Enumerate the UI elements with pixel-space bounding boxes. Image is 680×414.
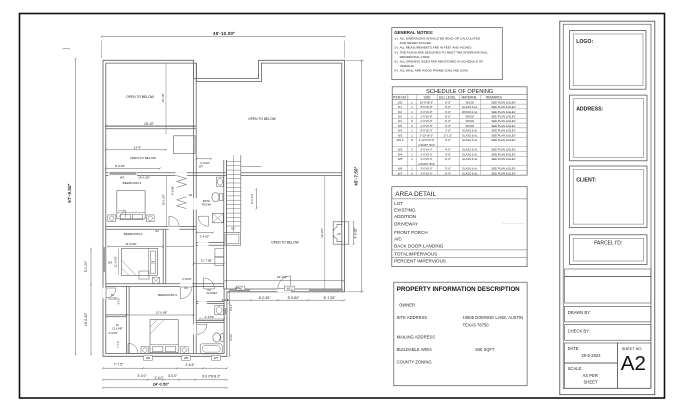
wall: left closet shelf — [106, 315, 127, 317]
svg-text:AND NEVER SCALED.: AND NEVER SCALED. — [400, 41, 432, 45]
svg-text:SEE PLAN & ELEV: SEE PLAN & ELEV — [491, 148, 515, 152]
svg-text:TOTALIMPERVIOUS: TOTALIMPERVIOUS — [394, 252, 437, 257]
svg-text:SEE PLAN & ELEV: SEE PLAN & ELEV — [491, 129, 515, 133]
svg-text:0'-0": 0'-0" — [445, 114, 451, 118]
svg-text:D4: D4 — [207, 288, 211, 292]
svg-text:W2.2: W2.2 — [396, 138, 403, 142]
svg-text:W3: W3 — [120, 176, 125, 180]
window W3 left wall — [103, 247, 112, 272]
svg-text:GLASS & AL: GLASS & AL — [462, 157, 478, 161]
svg-text:ITEM NO +: ITEM NO + — [393, 96, 409, 100]
svg-text:PROPERTY INFORMATION DESCRIPTI: PROPERTY INFORMATION DESCRIPTION — [397, 286, 520, 293]
bath3 sink — [215, 306, 224, 315]
window W3 bedroom1 — [109, 172, 138, 176]
svg-text:SIZE: SIZE — [424, 96, 431, 100]
svg-text:2'-0"x6'-8": 2'-0"x6'-8" — [420, 114, 432, 118]
svg-text:D5: D5 — [231, 227, 235, 231]
area detail box — [392, 187, 527, 267]
svg-text:0'-0": 0'-0" — [445, 138, 451, 142]
dim v 19-0 — [320, 176, 325, 292]
svg-text:AS PER: AS PER — [583, 373, 598, 378]
svg-text:3'-0"x5'-0": 3'-0"x5'-0" — [420, 167, 432, 171]
label kl closet1 — [108, 293, 117, 301]
svg-text:D4: D4 — [184, 286, 188, 290]
svg-text:WOOD: WOOD — [465, 119, 474, 123]
svg-text:SITE ADDRESS: SITE ADDRESS — [397, 315, 428, 320]
svg-text:WT: WT — [199, 165, 203, 168]
title block frame — [560, 21, 655, 395]
svg-text:LONGBT HIGH: LONGBT HIGH — [418, 144, 435, 147]
svg-text:0'-0": 0'-0" — [445, 157, 451, 161]
svg-text:5-): 5-) — [394, 68, 398, 72]
svg-text:OWNER: OWNER — [399, 302, 415, 307]
bed bedroom3 — [141, 320, 188, 354]
svg-text:SHEET: SHEET — [584, 379, 598, 384]
parcel id box — [570, 235, 647, 265]
bath1 shower — [213, 213, 224, 222]
wall: bedroom2 right — [163, 229, 166, 284]
dim 11-7.08 — [193, 259, 226, 265]
svg-text:CHECK BY:: CHECK BY: — [568, 329, 590, 334]
svg-text:SEE PLAN & ELEV: SEE PLAN & ELEV — [491, 157, 515, 161]
svg-text:COUNTY ZONING: COUNTY ZONING — [397, 359, 432, 364]
dim 2-2.00 — [198, 315, 225, 320]
address box — [570, 95, 647, 161]
stairs — [226, 155, 261, 232]
svg-text:SEE PLAN & ELEV: SEE PLAN & ELEV — [491, 119, 515, 123]
svg-text:KL: KL — [116, 323, 120, 327]
svg-text:AREA DETAIL: AREA DETAIL — [395, 191, 436, 198]
svg-text:3'-10"x6'-0": 3'-10"x6'-0" — [420, 133, 434, 137]
svg-text:10805 DOERING LANE, AUSTIN: 10805 DOERING LANE, AUSTIN — [463, 315, 524, 320]
svg-text:D1: D1 — [398, 105, 402, 109]
svg-text:5'-9.50": 5'-9.50" — [288, 296, 301, 300]
svg-text:7'-7.3": 7'-7.3" — [117, 341, 120, 348]
svg-text:ALL OPENING SIZES ARE MENTIONE: ALL OPENING SIZES ARE MENTIONED IN SCHED… — [400, 59, 484, 63]
svg-text:MATERIAL: MATERIAL — [462, 96, 478, 100]
svg-text:4'-0.00": 4'-0.00" — [354, 228, 358, 239]
svg-text:ADDRESS:: ADDRESS: — [576, 107, 603, 113]
svg-text:EXISTING: EXISTING — [394, 208, 416, 213]
bath1 sink — [217, 177, 224, 186]
date box — [565, 343, 618, 363]
svg-text:SEE PLAN & ELEV: SEE PLAN & ELEV — [491, 167, 515, 171]
svg-text:D4: D4 — [398, 119, 402, 123]
door bath1 — [198, 216, 208, 226]
svg-text:BUILDABLE AREA: BUILDABLE AREA — [397, 347, 433, 352]
window tag W6a — [144, 356, 153, 361]
svg-text:45'-7.50": 45'-7.50" — [353, 166, 358, 185]
svg-text:D3: D3 — [398, 114, 402, 118]
svg-text:11'-7.08": 11'-7.08" — [201, 259, 213, 263]
dim left 57-9.50 — [63, 49, 77, 356]
bed bedroom1 — [108, 191, 154, 222]
window tag W2 — [236, 286, 245, 290]
svg-text:DRAWN BY:: DRAWN BY: — [568, 310, 591, 315]
svg-text:4'-0.08": 4'-0.08" — [171, 186, 175, 195]
wall: bath1 bottom — [196, 243, 224, 246]
window band W2 — [229, 289, 250, 292]
svg-text:ADDITION: ADDITION — [394, 214, 416, 219]
hall closet shelf — [166, 245, 194, 247]
dim v right of left block — [228, 291, 233, 358]
svg-text:OPEN TO BELOW: OPEN TO BELOW — [248, 117, 276, 121]
svg-text:FP: FP — [337, 232, 341, 236]
svg-text:3'-0.0": 3'-0.0" — [137, 374, 146, 378]
svg-text:18'-10": 18'-10" — [144, 122, 154, 126]
door closet2 — [128, 343, 138, 353]
svg-text:GLASS & AL: GLASS & AL — [462, 138, 478, 142]
svg-text:ALL MEASUREMENTS ARE IN FEET A: ALL MEASUREMENTS ARE IN FEET AND INCHES — [400, 46, 472, 50]
dim bottom left row A — [102, 363, 228, 370]
svg-text:LOT: LOT — [394, 201, 403, 206]
door gaps — [103, 172, 291, 334]
svg-text:MAILING ADDRESS: MAILING ADDRESS — [397, 335, 436, 340]
door bath3 — [197, 324, 207, 334]
schedule of opening table — [392, 87, 527, 176]
svg-text:GLASS & AL: GLASS & AL — [462, 105, 478, 109]
dim 12-0.08 — [125, 311, 194, 317]
wall: bath column right — [224, 160, 227, 289]
svg-text:3'-0"x5'-0": 3'-0"x5'-0" — [420, 171, 432, 175]
svg-text:8'-6 1/2": 8'-6 1/2" — [250, 193, 254, 204]
dim v 10-1.90 — [162, 176, 167, 227]
svg-text:OPEN TO BELOW: OPEN TO BELOW — [130, 156, 156, 160]
svg-text:2'-0.0": 2'-0.0" — [154, 376, 163, 380]
svg-text:D5: D5 — [398, 124, 402, 128]
svg-text:WT: WT — [214, 356, 219, 360]
svg-text:8'-0"x6'-8": 8'-0"x6'-8" — [420, 105, 432, 109]
svg-text:1-): 1-) — [394, 37, 398, 41]
window tag WT — [212, 356, 221, 361]
svg-text:LONGBT HIGH: LONGBT HIGH — [418, 163, 435, 166]
door closet mid — [204, 278, 215, 289]
svg-text:3'-0"x5'-0": 3'-0"x5'-0" — [420, 157, 432, 161]
svg-text:W2.2: W2.2 — [286, 286, 293, 290]
svg-text:SEE PLAN & ELEV: SEE PLAN & ELEV — [491, 133, 515, 137]
svg-text:SCALE:: SCALE: — [568, 366, 583, 371]
svg-text:W3: W3 — [398, 148, 403, 152]
bath3 toilet — [213, 333, 224, 342]
svg-text:SEE PLAN & ELEV: SEE PLAN & ELEV — [491, 100, 515, 104]
svg-text:A2: A2 — [621, 352, 646, 375]
door bedroom2 — [169, 216, 179, 226]
svg-text:16'-0"x8'-0": 16'-0"x8'-0" — [420, 100, 434, 104]
svg-text:6'-7.25": 6'-7.25" — [324, 296, 337, 300]
svg-text:2'-4.00": 2'-4.00" — [200, 235, 210, 239]
svg-text:2'-0"x5'-0": 2'-0"x5'-0" — [420, 152, 432, 156]
window band W4 left-block right wall — [224, 308, 227, 314]
svg-text:8'-0"x5'-0": 8'-0"x5'-0" — [420, 129, 432, 133]
client box — [570, 166, 647, 228]
blank row 1 — [565, 269, 651, 277]
svg-text:3'-10.5"x6'-0": 3'-10.5"x6'-0" — [419, 138, 435, 142]
svg-text:6'-4": 6'-4" — [445, 171, 451, 175]
svg-text:0'-0": 0'-0" — [445, 119, 451, 123]
door front — [278, 276, 291, 289]
scale box — [565, 363, 618, 388]
svg-text:GENERAL NOTES:: GENERAL NOTES: — [394, 30, 434, 35]
svg-text:W6: W6 — [398, 167, 403, 171]
svg-text:W1: W1 — [398, 129, 403, 133]
wall: bedroom1 top left part — [106, 173, 227, 176]
dim bottom left row B — [102, 374, 228, 381]
svg-text:ALL DIMENSIONS SHOULD BE READ: ALL DIMENSIONS SHOULD BE READ OR CALCULA… — [400, 37, 481, 41]
svg-text:RESIDENTIAL CODE.: RESIDENTIAL CODE. — [400, 55, 431, 59]
svg-text:SILL LEVEL: SILL LEVEL — [439, 96, 456, 100]
svg-text:3'-0.0": 3'-0.0" — [117, 297, 120, 304]
ac unit box — [153, 277, 160, 284]
outer wall outline — [103, 60, 345, 356]
svg-text:CLIENT:: CLIENT: — [576, 177, 596, 183]
svg-text:GLASS & AL: GLASS & AL — [462, 148, 478, 152]
svg-text:ALL WALL ARE WOOD FRAME (2X6): ALL WALL ARE WOOD FRAME (2X6) AND (2X4) — [400, 68, 468, 72]
svg-text:WOOD & GL: WOOD & GL — [462, 110, 478, 114]
svg-text:SEE PLAN & ELEV: SEE PLAN & ELEV — [491, 114, 515, 118]
dim v 11-6 — [113, 249, 118, 276]
svg-text:W3: W3 — [108, 260, 112, 264]
svg-text:GLASS & AL: GLASS & AL — [462, 171, 478, 175]
svg-text:16'-1.08": 16'-1.08" — [138, 176, 150, 180]
svg-text:SEE PLAN & ELEV: SEE PLAN & ELEV — [491, 138, 515, 142]
svg-text:0'-0": 0'-0" — [445, 105, 451, 109]
sheet no box — [617, 343, 651, 388]
svg-text:D4: D4 — [155, 229, 159, 233]
svg-text:WOOD: WOOD — [465, 124, 474, 128]
svg-text:0'-0": 0'-0" — [445, 100, 451, 104]
svg-text:0'-0": 0'-0" — [445, 124, 451, 128]
svg-text:2'-0"x6'-8": 2'-0"x6'-8" — [420, 124, 432, 128]
svg-text:PARCEL I'D:: PARCEL I'D: — [594, 241, 622, 247]
svg-text:3'-0.0": 3'-0.0" — [168, 374, 177, 378]
svg-text:4'-9.00": 4'-9.00" — [108, 331, 118, 335]
wall: bedroom3 top — [106, 284, 224, 287]
svg-text:3'-0"x4'-0": 3'-0"x4'-0" — [420, 148, 432, 152]
svg-text:OPENING.: OPENING. — [400, 64, 415, 68]
svg-text:GLASS & AL: GLASS & AL — [462, 129, 478, 133]
label kl closet2 — [112, 323, 123, 331]
closet box near stairs — [174, 136, 196, 154]
wall: bedroom2 top — [106, 227, 197, 230]
svg-text:4'-0": 4'-0" — [445, 148, 451, 152]
bath3 tub — [200, 344, 222, 354]
svg-text:W5: W5 — [398, 157, 403, 161]
svg-text:5'-0.00": 5'-0.00" — [84, 260, 88, 272]
svg-text:W2: W2 — [398, 133, 403, 137]
svg-text:W2: W2 — [238, 286, 243, 290]
dim left inner — [84, 248, 92, 356]
closet under stairs — [224, 233, 241, 246]
svg-text:7'-7.5": 7'-7.5" — [114, 363, 124, 367]
svg-text:SCHEDULE OF OPENING: SCHEDULE OF OPENING — [426, 89, 493, 95]
svg-text:DATE:: DATE: — [568, 346, 580, 351]
svg-text:D4: D4 — [189, 193, 193, 197]
svg-text:2'-0.00": 2'-0.00" — [200, 161, 210, 165]
wall: left closet divider — [127, 286, 130, 353]
svg-text:BEDROOM-2: BEDROOM-2 — [124, 232, 143, 236]
wall: living top right part — [241, 173, 342, 176]
svg-text:W4: W4 — [398, 152, 403, 156]
svg-text:A/C: A/C — [394, 237, 402, 242]
svg-text:BACK DOOR LANDING: BACK DOOR LANDING — [394, 243, 444, 248]
svg-text:4'-6.0": 4'-6.0" — [222, 298, 230, 302]
svg-text:WOOD: WOOD — [465, 100, 474, 104]
dim v 8-6.5 stairs — [250, 188, 257, 210]
svg-text:REMARKS: REMARKS — [486, 96, 502, 100]
svg-text:FRONT PORCH: FRONT PORCH — [394, 230, 428, 235]
svg-text:SEE PLAN & ELEV: SEE PLAN & ELEV — [491, 124, 515, 128]
dim 22-0.5 — [224, 275, 345, 282]
svg-text:ROOM: ROOM — [202, 203, 211, 207]
dim bottom 24-0.50 — [102, 383, 228, 389]
svg-text:SEE PLAN & ELEV: SEE PLAN & ELEV — [491, 110, 515, 114]
svg-text:24'-0.50": 24'-0.50" — [153, 383, 170, 387]
svg-text:2'-0": 2'-0" — [445, 129, 451, 133]
svg-text:12'-0.08": 12'-0.08" — [156, 311, 168, 315]
svg-text:13'-6": 13'-6" — [134, 146, 142, 150]
label bathroom — [202, 199, 211, 206]
svg-text:57'-9.50": 57'-9.50" — [67, 183, 72, 202]
svg-text:3'-0": 3'-0" — [445, 152, 451, 156]
svg-text:0'-0": 0'-0" — [445, 110, 451, 114]
wall: open-to-below room bottom — [106, 126, 197, 129]
svg-text:W6: W6 — [184, 356, 189, 360]
drawn by box — [565, 306, 651, 322]
svg-text:OPEN TO BELOW: OPEN TO BELOW — [126, 95, 154, 99]
window tag W2.2 — [284, 286, 295, 290]
svg-text:16'-6.30": 16'-6.30" — [84, 312, 88, 326]
dim v 16-10 — [161, 63, 166, 134]
door bedroom3 — [181, 287, 193, 299]
fireplace FP — [333, 222, 349, 244]
svg-text:W7: W7 — [398, 171, 403, 175]
svg-text:D2: D2 — [398, 110, 402, 114]
svg-text:8'-0.25": 8'-0.25" — [115, 164, 125, 168]
svg-text:GLASS & AL: GLASS & AL — [462, 167, 478, 171]
dim right 45-7.50 — [346, 59, 364, 293]
svg-text:2'-8.00": 2'-8.00" — [182, 277, 192, 281]
svg-text:840 SQFT: 840 SQFT — [476, 347, 495, 352]
svg-text:6'-0.25": 6'-0.25" — [259, 296, 272, 300]
svg-text:KL: KL — [111, 293, 115, 297]
svg-text:SHEET NO:: SHEET NO: — [622, 346, 643, 351]
svg-text:WOOD: WOOD — [465, 114, 474, 118]
window tag W6b — [182, 356, 191, 361]
svg-text:2'-6"x6'-8": 2'-6"x6'-8" — [420, 119, 432, 123]
dim fireplace 4-0 — [353, 221, 358, 246]
svg-text:4'-3.1": 4'-3.1" — [230, 304, 233, 311]
dim 2-4.00 — [195, 232, 214, 239]
wall: closet mid bottom — [196, 302, 224, 304]
svg-text:10'-1.90": 10'-1.90" — [162, 194, 166, 205]
dim 8-0.25 — [105, 164, 161, 170]
svg-text:19'-0.0": 19'-0.0" — [320, 228, 324, 238]
svg-text:3-): 3-) — [394, 50, 398, 54]
dim 18-10 — [105, 122, 195, 127]
svg-text:TEXAS 78750: TEXAS 78750 — [463, 323, 490, 328]
dim 13-6 — [105, 146, 167, 151]
svg-text:GLASS & AL: GLASS & AL — [462, 152, 478, 156]
svg-text:THE PLANS ARE DESIGNED TO MEET: THE PLANS ARE DESIGNED TO MEET THE INTER… — [400, 50, 489, 54]
wall: bath3 top — [196, 321, 224, 323]
svg-text:PERCENT IMPERVIOUS: PERCENT IMPERVIOUS — [394, 258, 446, 263]
bifold door bedroom1 closet bottom — [177, 197, 187, 209]
property information box — [394, 282, 527, 386]
svg-text:LOGO:: LOGO: — [576, 39, 593, 45]
bath1 toilet — [212, 193, 223, 202]
dim top 46-10 — [100, 31, 345, 58]
svg-text:GLASS & AL: GLASS & AL — [462, 133, 478, 137]
svg-text:2'-1.5": 2'-1.5" — [444, 133, 452, 137]
wall: main vertical spine — [194, 63, 197, 353]
svg-text:SEE PLAN & ELEV: SEE PLAN & ELEV — [491, 171, 515, 175]
dim 2-0.00 — [195, 158, 212, 169]
door closet1 — [106, 288, 116, 298]
svg-text:20-5-2024: 20-5-2024 — [582, 353, 602, 358]
check by box — [565, 325, 651, 341]
svg-text:8'-3.0": 8'-3.0" — [230, 333, 233, 340]
svg-text:W4: W4 — [235, 287, 239, 290]
laundry units — [215, 249, 224, 266]
svg-text:16'-10": 16'-10" — [161, 93, 165, 102]
svg-text:2-): 2-) — [394, 46, 398, 50]
svg-text:4-): 4-) — [394, 59, 398, 63]
logo box — [570, 31, 646, 90]
svg-text:22'-0.5": 22'-0.5" — [277, 275, 287, 279]
svg-text:SEE PLAN & ELEV: SEE PLAN & ELEV — [491, 105, 515, 109]
blank row 2 — [565, 277, 651, 304]
svg-text:46'-10.00": 46'-10.00" — [213, 31, 235, 36]
svg-text:2'-6.6": 2'-6.6" — [185, 363, 194, 367]
svg-text:11'-0.08": 11'-0.08" — [125, 242, 137, 246]
svg-text:DRIVEWAY: DRIVEWAY — [394, 221, 418, 226]
svg-text:CLOSE: CLOSE — [108, 296, 117, 300]
svg-text:2'-2.00": 2'-2.00" — [205, 315, 215, 319]
svg-text:OPEN TO BELOW: OPEN TO BELOW — [271, 241, 299, 245]
window band W1 — [309, 289, 343, 292]
bifold door bedroom1 closet top — [176, 176, 186, 188]
svg-text:3'-0.0"8'-8.3": 3'-0.0"8'-8.3" — [202, 375, 220, 379]
general notes box — [392, 28, 503, 80]
svg-text:CL-UNIT: CL-UNIT — [112, 326, 123, 330]
svg-text:BEDROOM-1: BEDROOM-1 — [123, 181, 142, 185]
dim bottom right row — [222, 296, 346, 302]
svg-text:6'-0"x6'-8": 6'-0"x6'-8" — [420, 110, 432, 114]
bed bedroom2 — [122, 248, 158, 279]
svg-text:SEE PLAN & ELEV: SEE PLAN & ELEV — [491, 152, 515, 156]
svg-text:W6: W6 — [146, 356, 151, 360]
svg-text:BEDROOM-3: BEDROOM-3 — [158, 293, 177, 297]
svg-text:3'-0": 3'-0" — [445, 167, 451, 171]
dim 11-0.08 — [107, 242, 164, 248]
svg-text:11'-6.00": 11'-6.00" — [113, 256, 117, 267]
